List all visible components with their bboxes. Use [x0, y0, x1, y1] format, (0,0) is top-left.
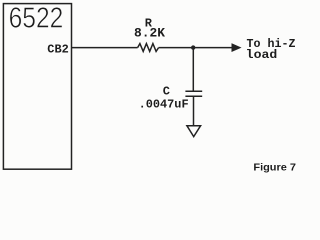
svg-text:.0047uF: .0047uF — [139, 97, 189, 111]
svg-text:load: load — [246, 48, 278, 62]
ground symbol — [187, 126, 201, 137]
wire CB2 to resistor — [72, 47, 138, 49]
IC U1 6522 box — [3, 4, 71, 170]
wire capacitor to ground — [193, 96, 195, 125]
junction node — [191, 45, 195, 49]
capacitor C1 top plate — [185, 90, 202, 92]
capacitor C1 bottom plate — [185, 95, 202, 97]
wire resistor to arrow — [159, 47, 233, 49]
svg-text:6522: 6522 — [9, 2, 64, 34]
resistor R1 zigzag — [138, 44, 159, 52]
svg-text:CB2: CB2 — [47, 42, 69, 56]
wire junction down to capacitor — [192, 48, 194, 91]
svg-text:8.2K: 8.2K — [134, 26, 165, 41]
svg-text:Figure 7: Figure 7 — [253, 162, 296, 174]
arrowhead to load — [232, 44, 241, 52]
